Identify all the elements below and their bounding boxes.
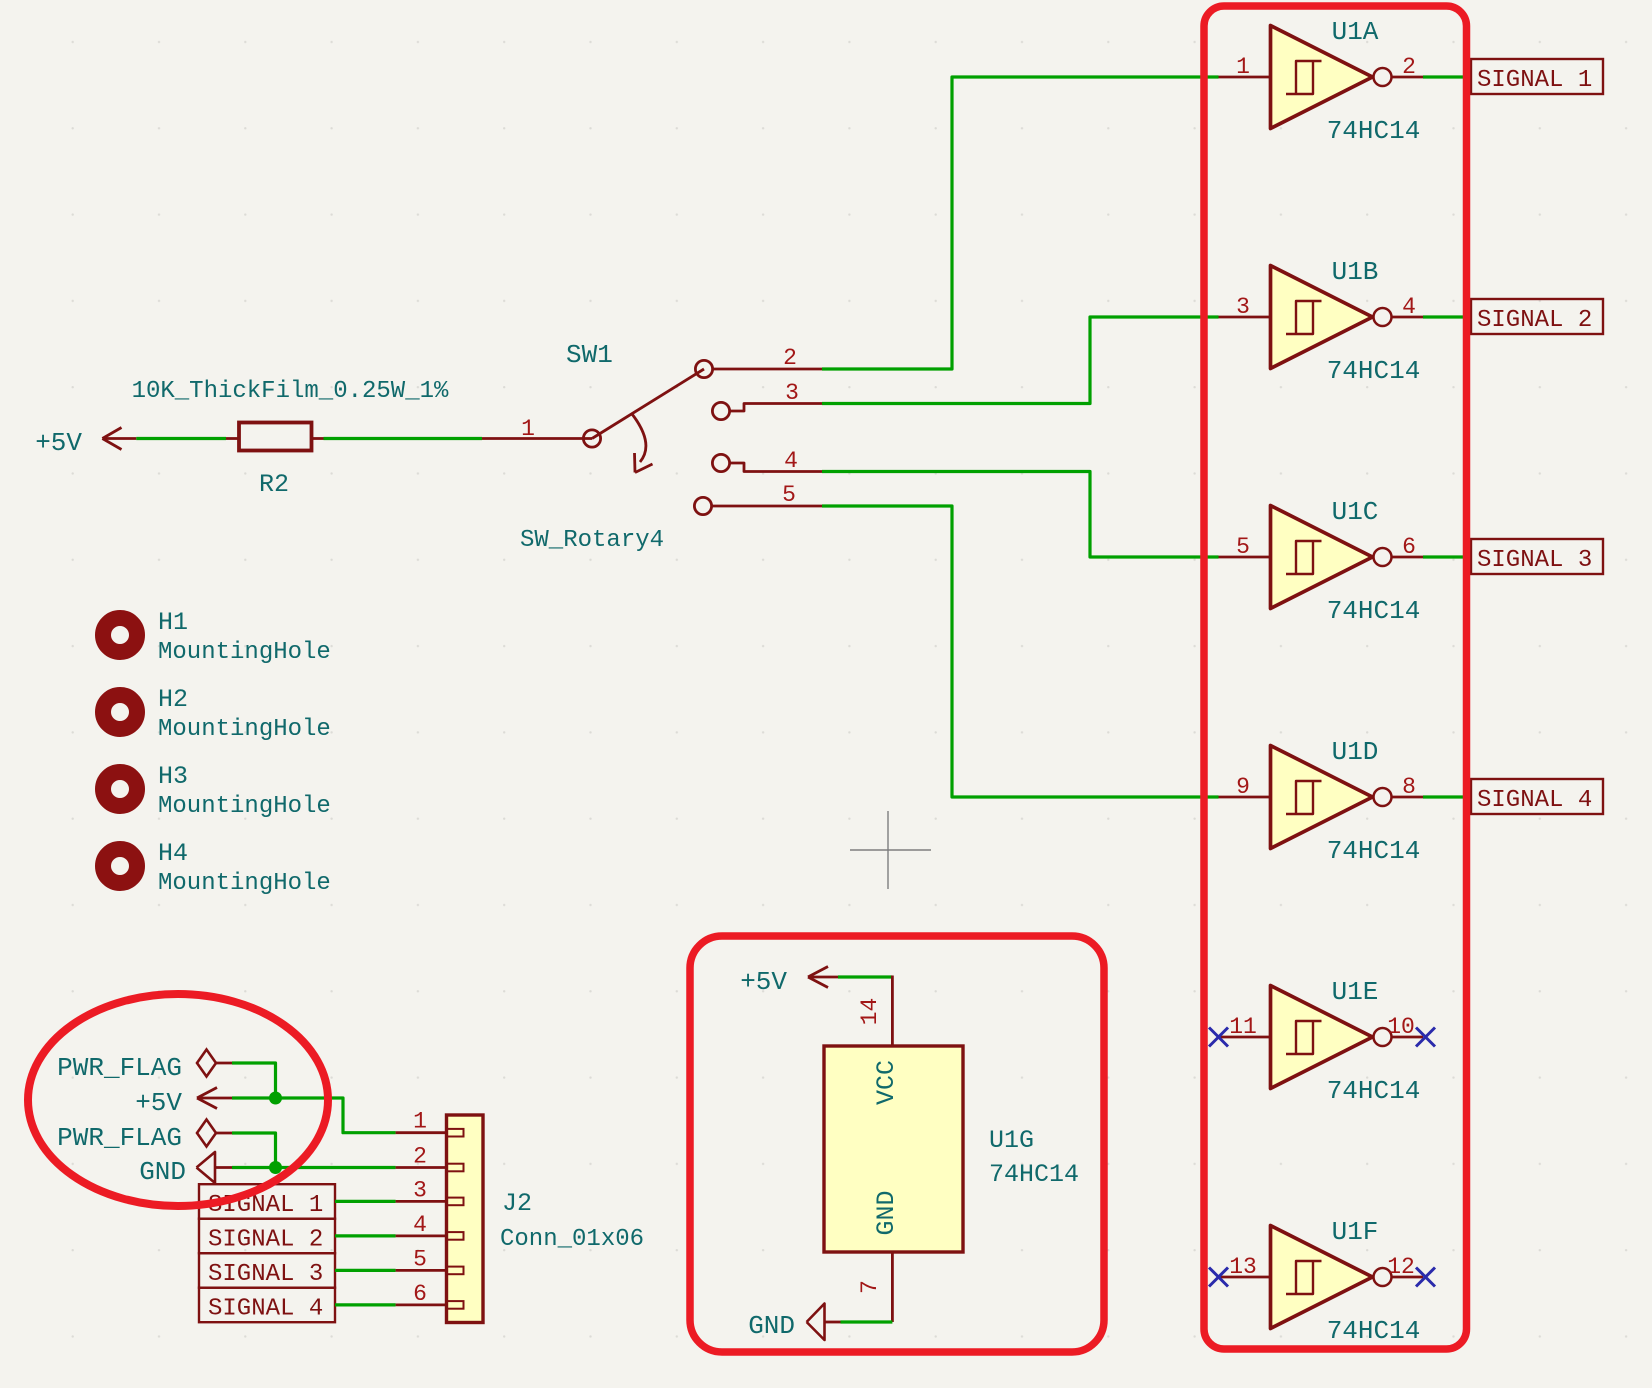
wire +5V to J2 pin1 xyxy=(232,1098,396,1133)
svg-text:MountingHole: MountingHole xyxy=(158,870,331,897)
svg-text:2: 2 xyxy=(1402,54,1416,80)
svg-text:SIGNAL 2: SIGNAL 2 xyxy=(208,1227,323,1254)
global label SIGNAL 4 (stack) xyxy=(199,1288,335,1323)
svg-text:PWR_FLAG: PWR_FLAG xyxy=(57,1053,182,1083)
svg-text:H2: H2 xyxy=(158,685,188,714)
svg-text:2: 2 xyxy=(413,1144,427,1170)
global label SIGNAL 2 (stack) xyxy=(199,1219,335,1254)
SW1 pin 1 xyxy=(482,430,601,447)
svg-text:+5V: +5V xyxy=(740,967,787,997)
svg-text:74HC14: 74HC14 xyxy=(1327,836,1421,866)
svg-text:VCC: VCC xyxy=(872,1060,901,1105)
inverter U1B body xyxy=(1271,266,1392,369)
svg-text:3: 3 xyxy=(785,380,799,406)
svg-text:GND: GND xyxy=(139,1157,186,1187)
power flag PWR_FLAG (upper) xyxy=(197,1050,232,1077)
wire R2 to SW1 pin1 xyxy=(324,437,483,440)
wire PWR_FLAG1 to +5V junction xyxy=(232,1063,276,1098)
mounting hole H1 xyxy=(103,618,137,652)
power symbol GND (U1G) xyxy=(807,1304,841,1341)
mounting hole H4 xyxy=(103,849,137,883)
wire SIGNAL 1 to J2 xyxy=(335,1200,396,1203)
svg-text:6: 6 xyxy=(1402,534,1416,560)
U1F input pin xyxy=(1219,1276,1271,1279)
global label SIGNAL 4 xyxy=(1471,779,1603,814)
svg-text:SIGNAL 4: SIGNAL 4 xyxy=(208,1296,323,1323)
U1E input pin xyxy=(1219,1036,1271,1039)
SW1 rotation arrow xyxy=(632,414,653,473)
wire U1C output to SIGNAL 3 xyxy=(1423,555,1471,558)
svg-text:74HC14: 74HC14 xyxy=(989,1160,1079,1189)
U1B output pin xyxy=(1392,316,1424,319)
svg-text:H4: H4 xyxy=(158,839,188,868)
svg-text:SIGNAL 4: SIGNAL 4 xyxy=(1477,787,1592,814)
J2 pin 6 xyxy=(396,1301,464,1309)
svg-text:GND: GND xyxy=(872,1190,901,1235)
wire U1A output to SIGNAL 1 xyxy=(1423,75,1471,78)
svg-text:4: 4 xyxy=(413,1212,427,1238)
svg-text:10K_ThickFilm_0.25W_1%: 10K_ThickFilm_0.25W_1% xyxy=(132,378,449,405)
svg-text:9: 9 xyxy=(1236,774,1250,800)
SW1 pin 3 xyxy=(712,402,822,419)
wire SIGNAL 3 to J2 xyxy=(335,1269,396,1272)
J2 pin 1 xyxy=(396,1129,464,1137)
svg-text:10: 10 xyxy=(1387,1014,1415,1040)
svg-text:SIGNAL 3: SIGNAL 3 xyxy=(208,1261,323,1288)
sheet center cross xyxy=(850,811,931,889)
svg-text:U1G: U1G xyxy=(989,1126,1034,1155)
power flag PWR_FLAG (lower) xyxy=(197,1120,232,1147)
svg-text:74HC14: 74HC14 xyxy=(1327,1076,1421,1106)
inverter U1D body xyxy=(1271,746,1392,849)
global label SIGNAL 1 xyxy=(1471,59,1603,94)
svg-text:5: 5 xyxy=(782,482,796,508)
wire SW1 pin3 to U1B xyxy=(822,317,1219,404)
global label SIGNAL 1 (stack) xyxy=(199,1184,335,1219)
power symbol +5V (bottom) xyxy=(197,1088,232,1109)
wire U1G GND to GND symbol xyxy=(841,1320,893,1323)
svg-text:5: 5 xyxy=(413,1246,427,1272)
mounting hole H3 xyxy=(103,772,137,806)
svg-text:4: 4 xyxy=(1402,294,1416,320)
svg-text:J2: J2 xyxy=(502,1189,532,1218)
svg-text:7: 7 xyxy=(857,1280,883,1294)
J2 pin 5 xyxy=(396,1267,464,1275)
wire SW1 pin4 to U1C xyxy=(822,472,1219,558)
SW1 rotor arm xyxy=(592,369,704,439)
global label SIGNAL 3 (stack) xyxy=(199,1253,335,1288)
SW1 pin 4 xyxy=(712,454,822,471)
svg-text:1: 1 xyxy=(521,416,535,442)
svg-text:74HC14: 74HC14 xyxy=(1327,116,1421,146)
svg-text:U1A: U1A xyxy=(1332,17,1379,47)
J2 pin 2 xyxy=(396,1164,464,1172)
svg-text:4: 4 xyxy=(784,448,798,474)
svg-text:MountingHole: MountingHole xyxy=(158,716,331,743)
svg-text:74HC14: 74HC14 xyxy=(1327,1316,1421,1346)
inverter U1A body xyxy=(1271,26,1392,129)
svg-text:MountingHole: MountingHole xyxy=(158,639,331,666)
svg-text:SIGNAL 3: SIGNAL 3 xyxy=(1477,547,1592,574)
svg-text:14: 14 xyxy=(857,998,883,1026)
wire SW1 pin2 to U1A xyxy=(822,77,1219,369)
svg-text:2: 2 xyxy=(783,345,797,371)
svg-text:GND: GND xyxy=(748,1311,795,1341)
U1D input pin xyxy=(1219,796,1271,799)
mounting hole H2 xyxy=(103,695,137,729)
svg-text:+5V: +5V xyxy=(35,428,82,458)
global label SIGNAL 3 xyxy=(1471,539,1603,574)
U1C input pin xyxy=(1219,556,1271,559)
svg-text:U1C: U1C xyxy=(1332,497,1379,527)
inverter U1E body xyxy=(1271,986,1392,1089)
wire SIGNAL 4 to J2 xyxy=(335,1303,396,1306)
svg-text:13: 13 xyxy=(1229,1254,1257,1280)
svg-text:SW1: SW1 xyxy=(566,340,613,370)
U1F output pin xyxy=(1392,1276,1424,1279)
wire PWR_FLAG2 to GND junction xyxy=(232,1133,276,1168)
wire SIGNAL 2 to J2 xyxy=(335,1234,396,1237)
inverter U1F body xyxy=(1271,1226,1392,1329)
no-connect output (U1E) xyxy=(1416,1028,1435,1047)
annotation rounded box (gate column) xyxy=(1204,6,1467,1349)
global label SIGNAL 2 xyxy=(1471,299,1603,334)
U1D output pin xyxy=(1392,796,1424,799)
svg-text:3: 3 xyxy=(1236,294,1250,320)
svg-text:8: 8 xyxy=(1402,774,1416,800)
wire +5V to R2 xyxy=(136,437,226,440)
annotation rounded box (U1G) xyxy=(690,936,1104,1352)
U1A output pin xyxy=(1392,76,1424,79)
wire SW1 pin5 to U1D xyxy=(822,506,1219,797)
svg-text:SW_Rotary4: SW_Rotary4 xyxy=(520,527,664,554)
wire GND to J2 pin2 xyxy=(232,1166,396,1169)
svg-text:PWR_FLAG: PWR_FLAG xyxy=(57,1123,182,1153)
svg-text:SIGNAL 2: SIGNAL 2 xyxy=(1477,307,1592,334)
wire U1B output to SIGNAL 2 xyxy=(1423,315,1471,318)
svg-text:11: 11 xyxy=(1229,1014,1257,1040)
power symbol +5V (left) xyxy=(102,428,136,450)
wire +5V to U1G VCC xyxy=(838,975,892,978)
svg-text:U1D: U1D xyxy=(1332,737,1379,767)
svg-text:H1: H1 xyxy=(158,608,188,637)
J2 pin 4 xyxy=(396,1232,464,1240)
U1B input pin xyxy=(1219,316,1271,319)
connector J2 body xyxy=(447,1115,484,1323)
svg-text:U1F: U1F xyxy=(1332,1217,1379,1247)
svg-text:MountingHole: MountingHole xyxy=(158,793,331,820)
svg-text:3: 3 xyxy=(413,1177,427,1203)
svg-text:Conn_01x06: Conn_01x06 xyxy=(500,1226,644,1253)
no-connect input (U1E) xyxy=(1209,1028,1228,1047)
svg-text:1: 1 xyxy=(413,1109,427,1135)
svg-text:74HC14: 74HC14 xyxy=(1327,356,1421,386)
wire U1D output to SIGNAL 4 xyxy=(1423,795,1471,798)
svg-text:+5V: +5V xyxy=(135,1088,182,1118)
power symbol GND (bottom left) xyxy=(197,1152,233,1183)
U1E output pin xyxy=(1392,1036,1424,1039)
J2 pin 3 xyxy=(396,1198,464,1206)
svg-text:R2: R2 xyxy=(259,470,289,499)
U1G pin 14 (VCC) xyxy=(891,976,894,1047)
junction GND xyxy=(269,1161,282,1174)
IC U1G body xyxy=(824,1046,963,1252)
SW1 pin 5 xyxy=(694,497,822,514)
SW1 pin 2 xyxy=(695,360,822,377)
svg-text:1: 1 xyxy=(1236,54,1250,80)
U1G pin 7 (GND) xyxy=(891,1252,894,1322)
no-connect input (U1F) xyxy=(1209,1268,1228,1287)
svg-text:SIGNAL 1: SIGNAL 1 xyxy=(208,1192,323,1219)
U1C output pin xyxy=(1392,556,1424,559)
svg-text:5: 5 xyxy=(1236,534,1250,560)
U1A input pin xyxy=(1219,76,1271,79)
svg-text:U1B: U1B xyxy=(1332,257,1379,287)
svg-text:H3: H3 xyxy=(158,762,188,791)
no-connect output (U1F) xyxy=(1416,1268,1435,1287)
svg-text:6: 6 xyxy=(413,1281,427,1307)
inverter U1C body xyxy=(1271,506,1392,609)
power symbol +5V (U1G) xyxy=(808,967,838,988)
svg-text:U1E: U1E xyxy=(1332,977,1379,1007)
svg-text:12: 12 xyxy=(1387,1254,1415,1280)
annotation ellipse (power flags) xyxy=(28,994,328,1206)
svg-text:74HC14: 74HC14 xyxy=(1327,596,1421,626)
junction +5V xyxy=(269,1092,282,1105)
svg-text:SIGNAL 1: SIGNAL 1 xyxy=(1477,67,1592,94)
resistor R2 xyxy=(226,423,324,451)
